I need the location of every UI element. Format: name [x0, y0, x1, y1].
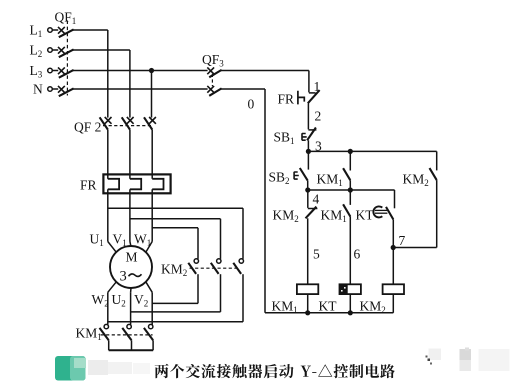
svg-text:SB2: SB2: [269, 170, 290, 187]
svg-text:N: N: [33, 82, 43, 97]
svg-text:QF1: QF1: [55, 10, 77, 27]
svg-text:V1: V1: [113, 232, 127, 249]
svg-text:QF 2: QF 2: [74, 120, 101, 135]
svg-text:KM1: KM1: [321, 208, 347, 225]
svg-text:1: 1: [314, 79, 321, 94]
svg-text:M: M: [126, 250, 138, 265]
svg-text:KM1: KM1: [76, 326, 102, 343]
svg-text:KM2: KM2: [273, 208, 299, 225]
svg-text:KM1: KM1: [317, 172, 343, 189]
svg-text:W2: W2: [92, 292, 109, 309]
svg-text:3: 3: [120, 269, 127, 285]
svg-text:3: 3: [315, 139, 322, 154]
svg-text:4: 4: [313, 192, 320, 207]
svg-text:KT: KT: [356, 208, 375, 223]
svg-text:V2: V2: [134, 292, 148, 309]
svg-text:7: 7: [399, 233, 406, 248]
svg-text:U1: U1: [90, 232, 104, 249]
svg-text:QF3: QF3: [202, 52, 224, 69]
svg-text:KM1: KM1: [272, 299, 298, 316]
svg-text:L3: L3: [30, 63, 43, 80]
svg-text:6: 6: [354, 247, 361, 262]
svg-text:KM2: KM2: [403, 171, 429, 188]
svg-text:2: 2: [315, 109, 322, 124]
svg-text:L2: L2: [30, 43, 43, 60]
svg-text:SB1: SB1: [274, 130, 295, 147]
svg-text:KT: KT: [319, 299, 338, 314]
svg-text:5: 5: [313, 247, 320, 262]
svg-text:W1: W1: [134, 232, 151, 249]
svg-text:FR: FR: [278, 91, 295, 106]
svg-text:U2: U2: [112, 292, 126, 309]
svg-text:L1: L1: [30, 23, 43, 40]
svg-text:0: 0: [248, 97, 255, 112]
svg-text:KM2: KM2: [161, 262, 187, 279]
svg-text:KM2: KM2: [360, 299, 386, 316]
svg-text:FR: FR: [80, 178, 97, 193]
